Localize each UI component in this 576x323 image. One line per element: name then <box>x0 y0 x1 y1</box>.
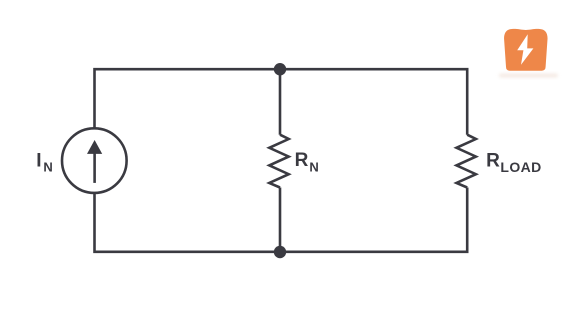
svg-text:R: R <box>295 150 309 171</box>
wire top-left segment <box>95 69 281 128</box>
svg-text:N: N <box>309 160 318 175</box>
label R_N <box>295 150 319 174</box>
current source IN <box>62 128 127 193</box>
logo CircuitBread toast with lightning bolt <box>499 29 558 78</box>
wire bottom-right segment <box>280 188 467 252</box>
svg-text:LOAD: LOAD <box>500 159 541 175</box>
wire top-right segment <box>280 69 467 135</box>
svg-text:R: R <box>486 150 500 171</box>
wire middle bottom segment <box>279 188 282 252</box>
node bottom junction <box>274 246 286 258</box>
wire middle top segment <box>279 69 282 135</box>
svg-text:I: I <box>36 150 41 171</box>
node top junction <box>274 63 286 75</box>
wire bottom-left segment <box>95 193 281 252</box>
label R_LOAD <box>486 150 542 175</box>
resistor RLOAD <box>457 135 476 188</box>
svg-text:N: N <box>43 160 52 175</box>
label I_N <box>36 150 53 174</box>
resistor RN <box>269 135 288 188</box>
